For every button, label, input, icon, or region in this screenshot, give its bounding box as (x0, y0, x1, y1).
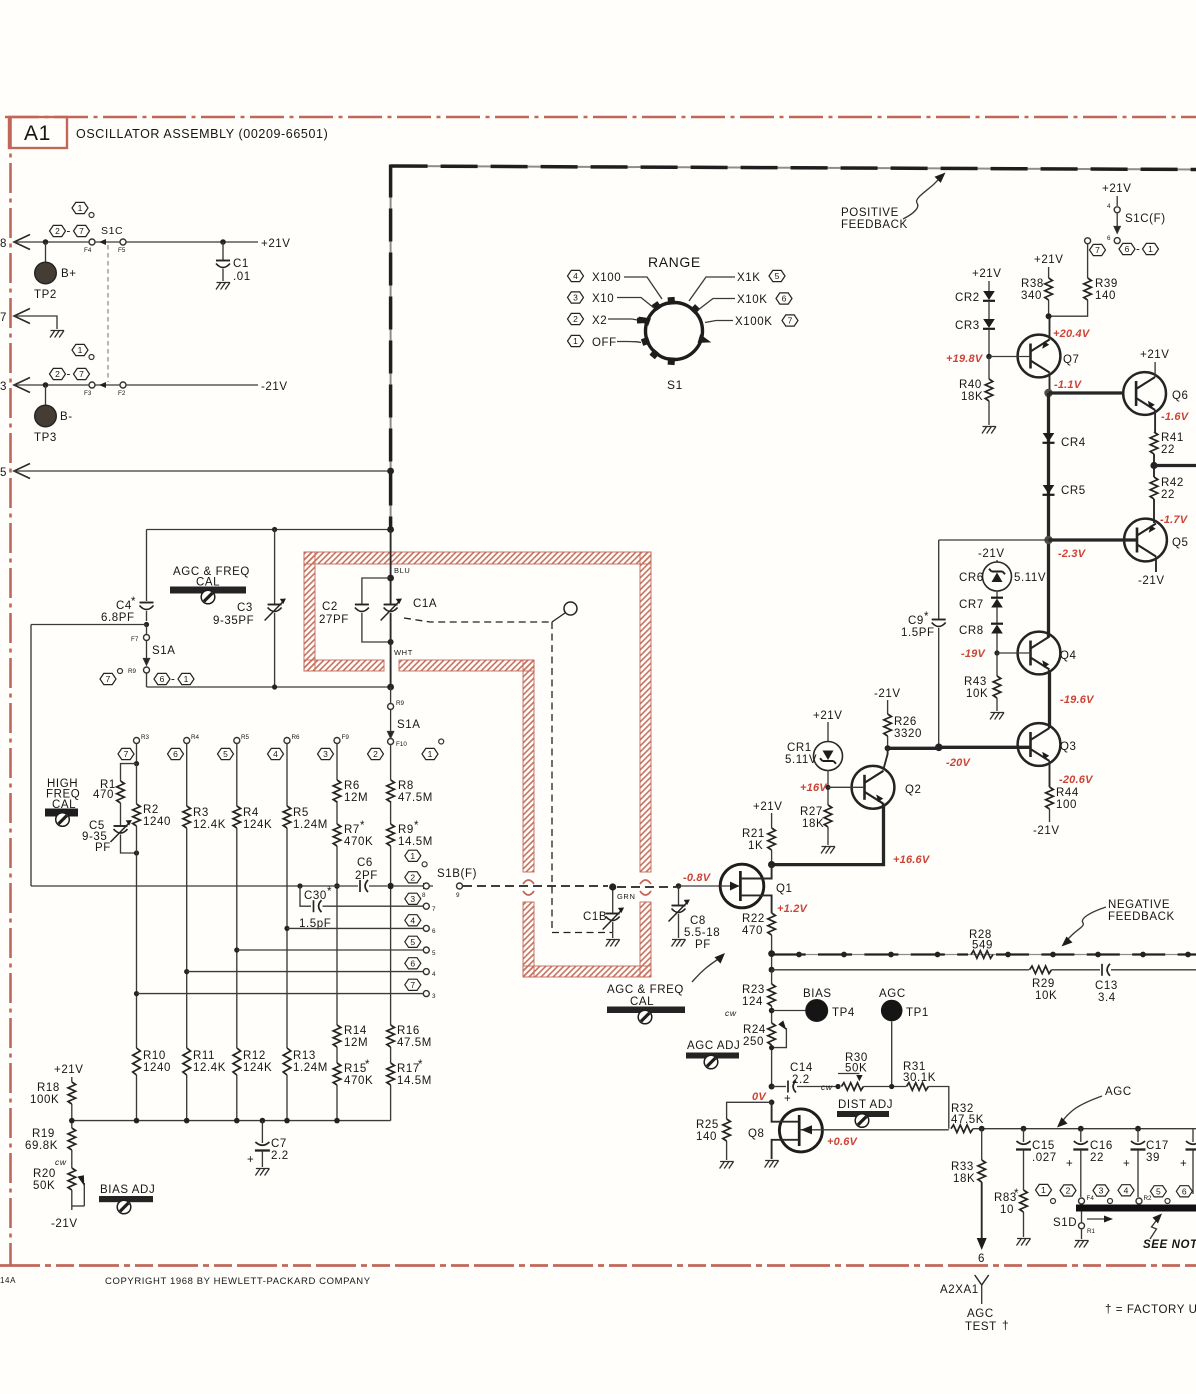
ground C7 (255, 1169, 269, 1176)
svg-text:COPYRIGHT 1968 BY HEWLETT-PACK: COPYRIGHT 1968 BY HEWLETT-PACKARD COMPAN… (105, 1276, 371, 1287)
svg-text:5: 5 (223, 749, 228, 759)
svg-text:TP3: TP3 (34, 432, 57, 444)
svg-text:C16: C16 (1090, 1140, 1113, 1152)
svg-text:27PF: 27PF (319, 614, 349, 626)
svg-text:4: 4 (432, 971, 436, 978)
capacitor C30 branch (297, 883, 302, 888)
svg-text:1240: 1240 (143, 816, 171, 828)
svg-text:F9: F9 (342, 734, 350, 741)
capacitor C3 variable (274, 530, 276, 605)
contact F4 (89, 239, 95, 245)
shield wall left band (304, 552, 315, 671)
svg-text:1: 1 (1041, 1185, 1046, 1195)
capacitor C5 (114, 826, 128, 833)
C1A rotor dashed link (404, 618, 612, 933)
ladder column F: R8/R9/R16/R17 (390, 745, 392, 1121)
ground C8 (672, 940, 686, 947)
svg-text:124K: 124K (243, 1062, 272, 1074)
svg-text:X10: X10 (592, 293, 614, 305)
svg-text:-21V: -21V (261, 381, 288, 393)
ladder column D: R5/R13 (286, 744, 288, 1121)
svg-text:1.5PF: 1.5PF (901, 627, 935, 639)
transistor Q5 (1124, 519, 1167, 562)
svg-text:C14: C14 (790, 1062, 813, 1074)
svg-text:340: 340 (1021, 290, 1042, 302)
C15 R83 column (1023, 1129, 1025, 1142)
potentiometer R24 (768, 1023, 776, 1045)
svg-text:3320: 3320 (894, 728, 922, 740)
svg-text:R4: R4 (191, 734, 200, 741)
svg-text:PF: PF (95, 842, 111, 854)
svg-text:5.11V: 5.11V (1014, 572, 1046, 584)
svg-text:R20: R20 (33, 1168, 56, 1180)
svg-text:-: - (67, 226, 71, 238)
svg-text:.01: .01 (233, 271, 251, 283)
svg-text:140: 140 (1095, 290, 1116, 302)
svg-text:1240: 1240 (143, 1062, 171, 1074)
svg-text:2: 2 (55, 369, 60, 379)
svg-text:4: 4 (1107, 203, 1111, 210)
svg-text:3: 3 (1099, 1186, 1104, 1196)
svg-text:Q7: Q7 (1063, 354, 1080, 366)
svg-text:S1D: S1D (1053, 1217, 1077, 1229)
shield wall middle band (304, 660, 384, 671)
thick Q4 emitter to Q3 collector (1048, 670, 1051, 728)
wire box left + C4 (146, 530, 148, 602)
svg-text:CR6: CR6 (959, 572, 984, 584)
svg-text:10K: 10K (966, 688, 988, 700)
svg-text:12M: 12M (344, 1037, 368, 1049)
svg-text:50K: 50K (33, 1180, 55, 1192)
resistor R83 (1020, 1190, 1028, 1212)
svg-text:+16.6V: +16.6V (893, 854, 931, 866)
resistor R10 (133, 1048, 141, 1075)
svg-text:NEGATIVE: NEGATIVE (1108, 899, 1170, 911)
svg-text:7: 7 (106, 674, 111, 684)
black dash-dot feedback boundary vertical (390, 165, 392, 531)
svg-text:+: + (1066, 1158, 1073, 1170)
shield wall inner vertical band (523, 660, 534, 872)
wire from left vertical (31, 624, 147, 626)
svg-text:AGC ADJ: AGC ADJ (687, 1040, 740, 1052)
svg-text:-21V: -21V (51, 1218, 78, 1230)
resistor R28 (971, 951, 993, 959)
svg-text:1.24M: 1.24M (293, 1062, 328, 1074)
svg-text:R9: R9 (398, 824, 414, 836)
capacitor C2 loop (362, 578, 391, 604)
svg-text:C17: C17 (1146, 1140, 1169, 1152)
svg-text:B+: B+ (61, 268, 77, 280)
svg-text:A2XA1: A2XA1 (940, 1284, 979, 1296)
ground R25 (720, 1162, 734, 1169)
svg-text:FEEDBACK: FEEDBACK (841, 219, 908, 231)
resistor R21 (768, 828, 776, 850)
svg-text:R25: R25 (696, 1119, 719, 1131)
svg-text:X2: X2 (592, 315, 607, 327)
svg-text:-1.6V: -1.6V (1161, 411, 1190, 423)
ground S1D R1 contact (1075, 1241, 1089, 1248)
svg-text:R9: R9 (128, 668, 137, 675)
svg-text:Q3: Q3 (1060, 741, 1077, 753)
test point TP1 (881, 1000, 903, 1022)
svg-text:R2: R2 (143, 804, 159, 816)
svg-text:R29: R29 (1032, 978, 1055, 990)
potentiometer R30 (841, 1083, 863, 1091)
resistor R31 (906, 1083, 928, 1091)
capacitor C4 (140, 603, 154, 610)
resistor R43 (996, 653, 998, 676)
svg-text:CR5: CR5 (1061, 485, 1086, 497)
resistor R41 zigzag (1150, 432, 1158, 454)
svg-text:124: 124 (742, 996, 763, 1008)
svg-text:OFF: OFF (592, 337, 617, 349)
A1 assembly box (9, 117, 67, 148)
svg-text:8: 8 (422, 892, 426, 899)
page border red dash-dot top (5, 116, 1196, 119)
svg-text:140: 140 (696, 1131, 717, 1143)
svg-text:3: 3 (0, 381, 7, 393)
svg-text:Q5: Q5 (1172, 537, 1189, 549)
ground R43 (990, 713, 1004, 720)
svg-text:47.5K: 47.5K (951, 1114, 984, 1126)
svg-text:R26: R26 (894, 716, 917, 728)
transistor Q8 FET (779, 1109, 822, 1152)
svg-text:4: 4 (273, 749, 278, 759)
svg-text:Q8: Q8 (748, 1128, 765, 1140)
range left labels (568, 270, 584, 281)
S1B wiper line (node 886) (31, 885, 358, 887)
resistor R43 zigzag (993, 676, 1001, 698)
svg-text:6: 6 (410, 958, 415, 968)
svg-text:X100: X100 (592, 272, 621, 284)
contact line 6 (287, 927, 423, 929)
svg-text:9-35PF: 9-35PF (213, 615, 254, 627)
resistor R7 (333, 824, 341, 846)
capacitor C8 (678, 886, 680, 905)
svg-text:47.5M: 47.5M (398, 792, 433, 804)
resistor R11 (183, 1048, 191, 1075)
ground C1B (606, 940, 620, 947)
svg-text:-2.3V: -2.3V (1058, 548, 1087, 560)
ladder column E: R6/R7/R14/R15 (336, 744, 338, 1121)
svg-text:1: 1 (78, 345, 83, 355)
svg-text:5.5-18: 5.5-18 (684, 927, 720, 939)
contact row (134, 738, 140, 744)
svg-text:+21V: +21V (1140, 349, 1170, 361)
svg-text:1: 1 (573, 336, 578, 346)
svg-text:-: - (67, 369, 71, 381)
test point TP2 (45, 242, 47, 262)
svg-text:7: 7 (124, 749, 129, 759)
svg-text:-19V: -19V (961, 648, 986, 660)
svg-text:*: * (131, 596, 136, 608)
svg-text:S1C: S1C (101, 225, 123, 237)
svg-text:8: 8 (0, 238, 7, 250)
left vertical wire (30, 625, 32, 887)
shield wall bottom band (523, 966, 651, 977)
svg-text:7: 7 (0, 312, 7, 324)
svg-text:R8: R8 (398, 780, 414, 792)
svg-text:7: 7 (432, 906, 436, 913)
svg-text:R12: R12 (243, 1050, 266, 1062)
svg-text:*: * (365, 1059, 370, 1071)
svg-text:R23: R23 (742, 984, 765, 996)
svg-text:2: 2 (573, 314, 578, 324)
svg-text:F3: F3 (84, 390, 92, 397)
svg-text:50K: 50K (845, 1063, 867, 1075)
svg-text:2: 2 (410, 872, 415, 882)
svg-text:-0.8V: -0.8V (683, 872, 712, 884)
svg-text:+1.2V: +1.2V (777, 903, 809, 915)
resistor R9 (387, 824, 395, 846)
hex row (118, 748, 134, 759)
svg-text:R39: R39 (1095, 278, 1118, 290)
svg-text:-21V: -21V (874, 688, 901, 700)
svg-text:6: 6 (782, 294, 787, 304)
svg-text:R3: R3 (141, 734, 150, 741)
svg-text:*: * (360, 820, 365, 832)
svg-text:R4: R4 (243, 807, 259, 819)
svg-text:R43: R43 (964, 676, 987, 688)
svg-text:3: 3 (323, 749, 328, 759)
svg-text:CR1: CR1 (787, 742, 812, 754)
svg-text:Q1: Q1 (776, 883, 793, 895)
svg-text:C13: C13 (1095, 980, 1118, 992)
svg-text:S1A: S1A (397, 719, 421, 731)
svg-text:+21V: +21V (1102, 183, 1132, 195)
ground Q8 source (765, 1161, 779, 1168)
ground pin 7 (50, 331, 64, 338)
svg-text:F10: F10 (396, 741, 407, 748)
svg-text:R11: R11 (193, 1050, 215, 1062)
resistor R27 (824, 805, 832, 827)
svg-text:R5: R5 (293, 807, 309, 819)
ladder column C: R4/R12 (236, 744, 238, 1121)
svg-text:*: * (327, 886, 332, 898)
svg-text:R10: R10 (143, 1050, 166, 1062)
svg-text:R41: R41 (1161, 432, 1184, 444)
svg-text:18K: 18K (953, 1173, 975, 1185)
svg-text:TP2: TP2 (34, 289, 57, 301)
transistor Q2 (852, 766, 895, 809)
svg-text:+21V: +21V (54, 1064, 84, 1076)
resistor R14 (333, 1025, 341, 1047)
S1B hex column (405, 850, 421, 861)
svg-text:R33: R33 (951, 1161, 974, 1173)
svg-text:C3: C3 (237, 602, 253, 614)
svg-text:F4: F4 (1087, 1195, 1095, 1202)
svg-text:+: + (1180, 1158, 1187, 1170)
svg-text:12M: 12M (344, 792, 368, 804)
svg-text:470K: 470K (344, 1075, 373, 1087)
svg-text:C2: C2 (322, 601, 338, 613)
C9 branch (939, 539, 1049, 541)
svg-text:470K: 470K (344, 836, 373, 848)
svg-text:549: 549 (972, 940, 993, 952)
wire to contact 8 with arrow (394, 885, 433, 887)
svg-text:C15: C15 (1032, 1140, 1055, 1152)
partial cap right edge (1192, 1129, 1194, 1142)
capacitor C1 (220, 239, 226, 245)
svg-text:22: 22 (1161, 444, 1175, 456)
svg-text:Q2: Q2 (905, 784, 922, 796)
contact line 3 (137, 993, 424, 995)
switch S1A upper contacts (146, 625, 148, 635)
transistor Q7 (1018, 335, 1061, 378)
svg-text:C1: C1 (233, 258, 249, 270)
svg-text:R21: R21 (742, 828, 765, 840)
svg-text:5: 5 (410, 937, 415, 947)
svg-text:R6: R6 (344, 780, 360, 792)
hex row above S1D (1036, 1184, 1052, 1195)
svg-text:R40: R40 (959, 379, 982, 391)
svg-text:1: 1 (428, 749, 433, 759)
svg-text:R13: R13 (293, 1050, 316, 1062)
resistor R32 (951, 1125, 973, 1133)
svg-text:C6: C6 (357, 857, 373, 869)
svg-text:-21V: -21V (1138, 575, 1165, 587)
svg-text:-19.6V: -19.6V (1060, 694, 1095, 706)
svg-text:+21V: +21V (972, 268, 1002, 280)
svg-text:250: 250 (743, 1036, 764, 1048)
svg-text:69.8K: 69.8K (25, 1140, 58, 1152)
svg-text:R16: R16 (397, 1025, 420, 1037)
svg-text:22: 22 (1090, 1152, 1104, 1164)
svg-text:*: * (1014, 1188, 1019, 1200)
svg-text:WHT: WHT (394, 648, 413, 657)
svg-text:† = FACTORY USE: † = FACTORY USE (1105, 1304, 1196, 1316)
ground R40 (982, 427, 996, 434)
svg-text:C4: C4 (116, 600, 132, 612)
svg-text:+21V: +21V (1034, 254, 1064, 266)
svg-text:C1B: C1B (583, 911, 607, 923)
switch S1A lower wafer (390, 687, 392, 703)
svg-text:3: 3 (432, 993, 436, 1000)
svg-text:Q6: Q6 (1172, 390, 1189, 402)
svg-text:100: 100 (1056, 799, 1077, 811)
node TP2 junction (43, 239, 49, 245)
svg-text:4: 4 (410, 915, 415, 925)
svg-text:1K: 1K (748, 840, 763, 852)
svg-text:-20V: -20V (946, 757, 971, 769)
svg-text:AGC: AGC (1105, 1086, 1132, 1098)
svg-text:R27: R27 (800, 806, 823, 818)
svg-text:1.24M: 1.24M (293, 819, 328, 831)
contact line 5 (237, 949, 423, 951)
svg-text:-: - (171, 674, 175, 686)
wire pin8 to +21V (14, 241, 258, 243)
svg-text:Q4: Q4 (1060, 650, 1077, 662)
ground C1 (216, 283, 230, 290)
C14 R30 R31 row (769, 1084, 775, 1090)
svg-text:-21V: -21V (1033, 825, 1060, 837)
svg-text:5: 5 (775, 271, 780, 281)
svg-text:6: 6 (1182, 1186, 1187, 1196)
svg-text:R44: R44 (1056, 787, 1079, 799)
connector A2XA1 (975, 1275, 989, 1285)
svg-text:C8: C8 (690, 915, 706, 927)
svg-text:124K: 124K (243, 819, 272, 831)
ladder column B: R3/R11 (186, 744, 188, 1121)
resistor R23 (768, 984, 776, 1006)
thick line Q7 node to Q6 base (1049, 391, 1123, 394)
index 1 hex top (72, 202, 88, 213)
resistor R3 (183, 806, 191, 828)
svg-text:2.2: 2.2 (271, 1150, 289, 1162)
svg-text:6: 6 (160, 674, 165, 684)
svg-text:14A: 14A (0, 1276, 16, 1285)
resistor R17 (387, 1063, 395, 1085)
svg-text:PF: PF (695, 939, 711, 951)
main vertical wire into shield (390, 530, 392, 605)
svg-text:5: 5 (1156, 1186, 1161, 1196)
capacitor C1A variable (384, 605, 398, 612)
svg-text:6: 6 (173, 749, 178, 759)
svg-text:5.11V: 5.11V (785, 754, 817, 766)
svg-text:5: 5 (0, 467, 7, 479)
svg-text:BLU: BLU (394, 566, 410, 575)
svg-text:6: 6 (1125, 244, 1130, 254)
resistor R33 (978, 1160, 986, 1182)
resistor R12 (233, 1048, 241, 1075)
svg-text:TP4: TP4 (832, 1007, 855, 1019)
svg-text:2: 2 (55, 226, 60, 236)
resistor R8 (387, 780, 395, 802)
transistor Q3 (1018, 723, 1061, 766)
resistor R42 zigzag (1150, 477, 1158, 499)
page border red bottom (0, 1264, 1196, 1267)
svg-text:+21V: +21V (261, 238, 291, 250)
svg-text:A1: A1 (24, 122, 51, 145)
resistor R44 (1049, 761, 1051, 787)
svg-text:+19.8V: +19.8V (946, 353, 984, 365)
svg-text:470: 470 (742, 925, 763, 937)
node GRN (609, 883, 616, 890)
svg-text:+: + (247, 1154, 254, 1166)
svg-text:AGC: AGC (967, 1308, 994, 1320)
shield gap marks (523, 880, 534, 884)
svg-text:30.1K: 30.1K (903, 1072, 936, 1084)
svg-text:39: 39 (1146, 1152, 1160, 1164)
resistor R33 (981, 1129, 983, 1160)
C16 column (1080, 1129, 1082, 1142)
svg-text:4: 4 (573, 271, 578, 281)
svg-text:C30: C30 (304, 890, 327, 902)
S1C linkage dashed (107, 245, 109, 382)
svg-text:F2: F2 (118, 390, 126, 397)
negative feedback dash-dot line + R28 (772, 954, 1196, 956)
svg-text:5: 5 (432, 950, 436, 957)
diode CR7 (991, 598, 1003, 608)
svg-text:B-: B- (60, 411, 73, 423)
svg-text:9: 9 (456, 892, 460, 899)
svg-text:2: 2 (1066, 1186, 1071, 1196)
svg-text:S1C(F): S1C(F) (1125, 213, 1166, 225)
wire box bottom (147, 686, 391, 688)
svg-text:R6: R6 (292, 734, 301, 741)
resistor R18 (68, 1082, 76, 1104)
svg-text:R3: R3 (193, 807, 209, 819)
svg-text:F5: F5 (118, 247, 126, 254)
svg-text:7: 7 (788, 316, 793, 326)
svg-text:6.8PF: 6.8PF (101, 612, 135, 624)
svg-text:.027: .027 (1032, 1152, 1057, 1164)
contact F3 (89, 382, 95, 388)
capacitor C6 (360, 880, 368, 892)
svg-text:R38: R38 (1021, 278, 1044, 290)
svg-text:22: 22 (1161, 489, 1175, 501)
svg-text:+: + (784, 1093, 791, 1105)
